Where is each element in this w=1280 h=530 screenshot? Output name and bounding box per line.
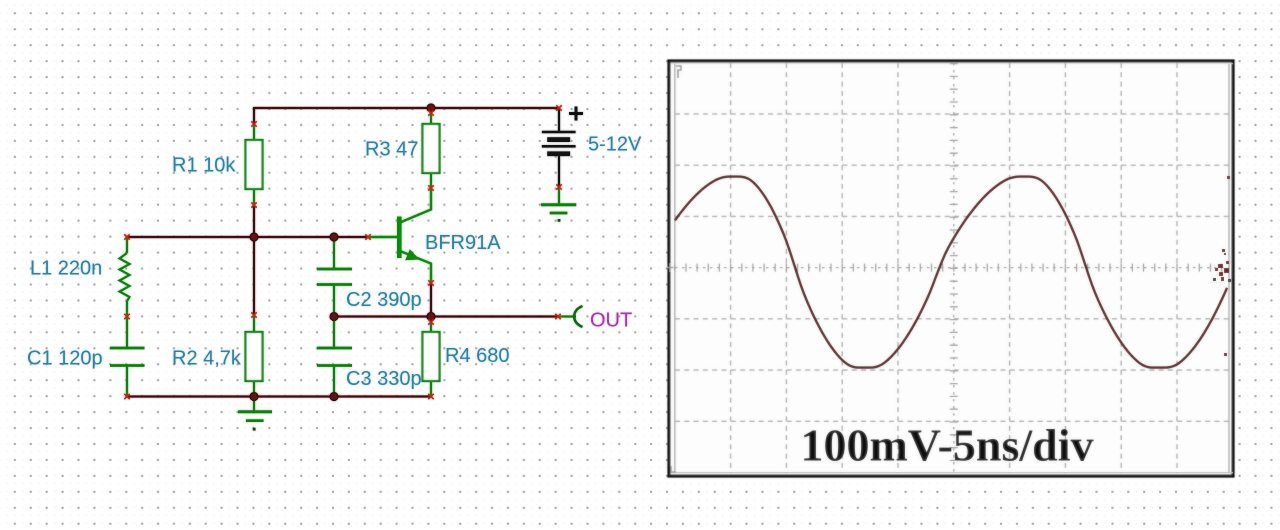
wire OUT rail [334,315,558,317]
C3 pins [333,317,335,398]
resistor R1 [246,140,263,189]
pin end mark R4 pin top [428,319,433,324]
junction VCC/R3 [427,104,435,112]
scope center vertical axis [675,63,1229,472]
pin end mark battery pin bottom [556,184,561,189]
trigger marker right edge [1213,176,1231,356]
ground stub below R2 [253,397,255,412]
ground below battery [541,205,576,222]
pin end mark R3 pin bottom [428,185,433,190]
resistor R2 [246,332,263,381]
junction base/R1 [250,233,258,241]
junction dots [250,104,435,401]
scope center horizontal axis [675,267,1229,269]
wire top rail VCC [126,107,559,397]
pin end mark Q1 emitter pin [428,280,433,285]
wire R1 bottom stub [253,204,255,238]
soft overlay duplicate [27,61,1233,476]
battery plus sign [569,107,583,121]
wire R1 top stub [253,107,255,125]
pin end mark battery pin top [556,105,561,110]
junction base/C2 [330,233,338,241]
pin end mark R1 pin top [251,121,256,126]
inductor L1 [120,253,130,301]
pin end mark L1 pin top [124,234,129,239]
pin end mark L1/C1 pin joint [124,314,129,319]
pin end mark Q1 base pin [365,234,370,239]
waveform trace [675,177,1227,368]
pin end mark R2 pin top [251,312,256,317]
pin end mark R3 pin top [428,110,433,115]
scope corner marker top-left [676,66,681,78]
wire base rail [126,236,368,238]
battery lead top [558,108,560,132]
battery BT1 plates [542,132,576,156]
R4 pins [430,316,432,397]
capacitor C1 [110,348,145,366]
component pins (green) [127,108,576,412]
wire bottom rail (ground net) [126,395,431,397]
C1 pins [126,317,128,398]
resistor R3 [423,124,440,173]
resistor R4 [423,332,440,381]
wire R2 top stub [253,237,255,316]
scope graticule border [671,63,1233,473]
scope left edge marker [668,263,674,272]
wire battery leads [558,108,560,188]
R1 pins [253,124,255,205]
junction ground/C3 [330,393,338,401]
label R1 10k [27,134,642,391]
pin end mark R4 pin bottom [428,394,433,399]
C2 pins [333,237,335,317]
scope corner marker bottom-left [671,466,676,472]
R2 pins [253,315,255,397]
junction ground/R2 [250,393,258,401]
capacitor C2 [317,269,352,285]
L1 pins [126,237,128,317]
OUT terminal stub [558,315,576,317]
junction OUT/C2-C3 [330,313,338,321]
junction OUT/R4 [427,313,435,321]
transistor Q1 BFR91A [368,188,431,283]
OUT terminal symbol [574,306,582,327]
R3 pins [430,108,432,188]
scope grid dashed lines [675,63,1229,473]
battery lead bottom [558,156,560,188]
ground stub below battery [558,187,560,205]
pin end mark C1 pin bottom [124,394,129,399]
capacitor C3 [317,348,352,366]
oscilloscope frame [669,61,1233,476]
pin end mark R1 pin bottom [251,202,256,207]
wire emitter to OUT rail [430,283,432,317]
ground below R2 [238,412,272,431]
pin end mark OUT terminal pin [555,314,560,319]
